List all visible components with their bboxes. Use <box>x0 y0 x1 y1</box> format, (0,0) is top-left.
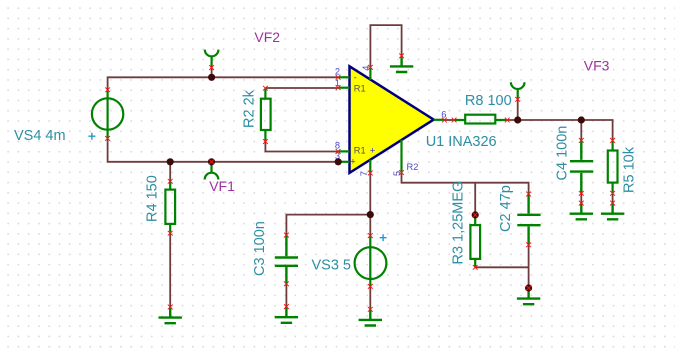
svg-text:R1: R1 <box>354 84 366 94</box>
terminal x gnd C3 <box>284 304 289 309</box>
wire from R2 bottom to pin8 <box>265 142 338 152</box>
terminal x VS3 top <box>368 233 373 238</box>
ground under R5 <box>601 203 624 219</box>
capacitor C2 <box>517 194 540 245</box>
terminal x gnd C2 <box>526 286 531 291</box>
wire R8 to R5 top <box>507 120 612 140</box>
terminal x VS3 bottom <box>368 284 373 289</box>
terminal x VF3 <box>515 97 520 102</box>
junction node R3 top <box>472 211 479 218</box>
junction node C2 ground <box>525 284 532 291</box>
voltage source VS3 <box>355 236 387 287</box>
wire pin7 down <box>369 173 371 215</box>
svg-text:C2 47p: C2 47p <box>498 185 514 232</box>
wire VF3 stub <box>517 99 519 120</box>
wire top from VS4 to pin2 <box>108 77 339 90</box>
terminal x R5 bottom <box>610 191 615 196</box>
wire VF2 stub <box>211 68 213 78</box>
resistor R8 <box>454 115 507 124</box>
terminal x gnd pin4 <box>399 53 404 58</box>
wire R3 bottom to C2 wire <box>475 266 528 268</box>
ground under VS3 <box>359 309 382 325</box>
voltage source VS4 <box>92 90 123 139</box>
terminal x R4 top <box>168 179 173 184</box>
wire VS3 bottom to ground <box>369 286 371 309</box>
junction node VF3 <box>514 116 521 123</box>
resistor R4 <box>165 181 175 233</box>
VS4 plus sign <box>88 133 95 140</box>
wire branch to R3 top <box>474 183 476 215</box>
terminal x VS4 bottom <box>105 136 110 141</box>
terminal x pin6 <box>442 118 447 123</box>
svg-text:VF1: VF1 <box>209 178 235 194</box>
resistor R3 <box>470 215 480 267</box>
svg-text:C4 100n: C4 100n <box>555 126 571 181</box>
terminal x over R3 top node <box>473 213 478 218</box>
svg-text:-: - <box>354 72 357 82</box>
terminal x R4 bottom <box>168 231 173 236</box>
svg-text:C3 100n: C3 100n <box>252 221 268 276</box>
terminal x pin5 <box>399 170 404 175</box>
svg-text:R2: R2 <box>407 162 419 172</box>
wire bottom from VS4 to pin3 <box>108 138 339 161</box>
capacitor C3 <box>275 235 298 284</box>
terminal x pin4 <box>368 65 373 70</box>
svg-text:R8 100: R8 100 <box>465 93 512 109</box>
terminal x over C2 ground node <box>526 286 531 291</box>
test point VF2 <box>205 50 219 68</box>
wire from R2 top to pin1 <box>265 87 338 89</box>
op-amp U1 INA326 <box>338 66 444 173</box>
svg-text:7: 7 <box>359 171 369 176</box>
wire R5 bottom to ground <box>612 193 614 203</box>
svg-text:+: + <box>370 145 375 155</box>
svg-text:VF3: VF3 <box>584 58 610 74</box>
test point VF1 <box>205 162 219 180</box>
junction node VF1 <box>208 158 215 165</box>
terminal x R2 top <box>263 86 268 91</box>
terminal x pin3 <box>336 159 341 164</box>
terminal x VF1 <box>209 159 214 164</box>
wire pin4 loop to ground <box>370 25 401 67</box>
resistor R2 <box>261 88 271 141</box>
terminal x pin1 <box>336 85 341 90</box>
terminal x pin2 <box>336 75 341 80</box>
wire pin5 to C2 top <box>402 173 529 195</box>
terminal x R8 left <box>452 118 457 123</box>
ground at pin4 <box>390 56 413 72</box>
terminal x R5 top <box>610 138 615 143</box>
capacitor C4 <box>570 140 593 193</box>
wire pin6 to R8 <box>444 119 454 121</box>
terminal x R3 top <box>473 213 478 218</box>
terminal x C2 top <box>526 192 531 197</box>
resistor R5 <box>608 140 618 193</box>
ground under R4 <box>159 307 182 323</box>
terminal x gnd R4 <box>168 305 173 310</box>
terminal x R8 right <box>505 118 510 123</box>
wire junction to C3 top <box>286 215 370 236</box>
wire junction to C4 top <box>580 120 582 140</box>
terminal x R3 bottom <box>473 265 478 270</box>
VS3 plus sign <box>380 234 387 241</box>
terminal x VF2 <box>209 65 214 70</box>
junction node VF2 <box>208 74 215 81</box>
terminal x C3 top <box>284 233 289 238</box>
terminal x gnd VS3 <box>368 307 373 312</box>
svg-text:VS3 5: VS3 5 <box>312 258 352 274</box>
terminal x C3 bottom <box>284 281 289 286</box>
terminal x over VF1 node <box>209 159 214 164</box>
terminal x VS4 top <box>105 87 110 92</box>
svg-text:R3 1,25MEG: R3 1,25MEG <box>450 181 466 265</box>
terminal x pin7 <box>368 171 373 176</box>
ground under C4 <box>570 203 593 219</box>
ground under C2 <box>517 288 540 304</box>
terminal x C4 bottom <box>579 191 584 196</box>
junction node C4 <box>578 116 585 123</box>
terminal x gnd C4 <box>579 201 584 206</box>
terminal x R2 bottom <box>263 139 268 144</box>
svg-text:VS4 4m: VS4 4m <box>14 128 66 144</box>
svg-text:R5 10k: R5 10k <box>622 146 638 193</box>
svg-text:U1 INA326: U1 INA326 <box>426 134 497 150</box>
wire C2 bottom to ground <box>528 245 530 288</box>
wire junction to R4 top <box>169 162 171 182</box>
wire junction to VS3 top <box>369 215 371 236</box>
terminal x C4 top <box>579 138 584 143</box>
wire C4 bottom to ground <box>580 193 582 203</box>
junction node pin3 <box>335 158 342 165</box>
svg-text:R2 2k: R2 2k <box>242 89 258 128</box>
terminal x gnd R5 <box>610 201 615 206</box>
ground under C3 <box>275 307 298 323</box>
terminal x pin8 <box>336 149 341 154</box>
test point VF3 <box>511 82 525 99</box>
wire C3 bottom to ground <box>285 284 287 307</box>
junction node R4 <box>167 158 174 165</box>
svg-text:R4 150: R4 150 <box>145 175 161 222</box>
terminal x C2 bottom <box>526 242 531 247</box>
wire R4 bottom to ground <box>169 233 171 307</box>
svg-text:VF2: VF2 <box>254 29 280 45</box>
svg-text:+: + <box>350 156 355 166</box>
junction node pin7 <box>367 211 374 218</box>
svg-text:R1: R1 <box>354 146 366 156</box>
